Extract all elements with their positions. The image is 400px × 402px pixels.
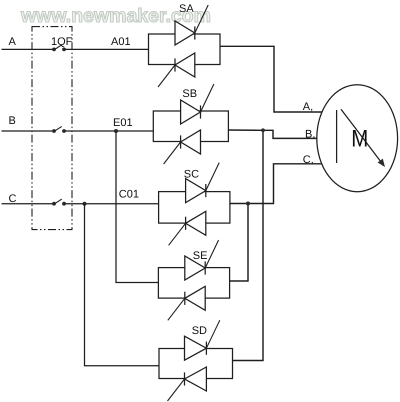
wire phase B from left edge to breaker contact — [2, 130, 55, 132]
node junction SD output on SB wire — [261, 128, 265, 132]
thyristor module SC box — [159, 192, 230, 224]
wire phase B from breaker to SB (net E01) — [64, 130, 153, 132]
svg-text:SE: SE — [193, 250, 208, 262]
node E01 junction on phase B (feeds SE) — [114, 129, 118, 133]
thyristor module SD box — [159, 349, 233, 379]
thyristor SE2 (reverse SCR, anode right) — [168, 286, 205, 320]
thyristor module SB box — [153, 111, 228, 142]
svg-text:A01: A01 — [111, 36, 131, 48]
wire phase C from left edge to breaker contact — [2, 203, 55, 205]
switch 1QF pole C (open contact with terminal dots) — [52, 199, 66, 206]
node C01 junction on phase C (feeds SD) — [83, 202, 87, 206]
node junction SE output on SC wire — [246, 202, 250, 206]
wire SD output up to phase B node — [233, 130, 264, 360]
thyristor SC1 (forward SCR, anode left) — [186, 163, 220, 203]
wire from E01 junction down to SE input — [116, 131, 158, 283]
thyristor SB1 (forward SCR, anode left) — [181, 84, 214, 124]
svg-text:SC: SC — [184, 169, 199, 181]
svg-text:E01: E01 — [113, 117, 133, 129]
wire from C01 junction down to SD input — [85, 204, 160, 366]
wire phase A from breaker to SA anode (net A01) — [64, 48, 149, 50]
svg-text:M: M — [351, 125, 368, 152]
svg-text:SA: SA — [179, 3, 194, 15]
wire phase C from breaker to SC (net C01) — [64, 203, 159, 205]
switch 1QF pole B (open contact with terminal dots) — [52, 126, 66, 133]
wire SB output to motor terminal B — [228, 130, 317, 138]
thyristor SC2 (reverse SCR, anode right) — [169, 211, 206, 245]
svg-text:B,: B, — [305, 129, 315, 141]
svg-text:B: B — [9, 115, 16, 127]
svg-text:C01: C01 — [119, 189, 139, 201]
motor stator bar — [336, 110, 338, 163]
motor M outline — [317, 85, 398, 192]
thyristor SA1 (forward SCR, anode left) — [175, 5, 208, 45]
wire SA output to motor terminal A — [220, 46, 322, 112]
thyristor module SA box — [149, 34, 221, 65]
motor shaft arrow — [341, 109, 385, 167]
wire SE output up to phase C node — [230, 204, 248, 282]
thyristor module SE box — [158, 268, 229, 299]
thyristor SA2 (reverse SCR, anode right) — [158, 53, 195, 87]
svg-text:SB: SB — [182, 88, 197, 100]
switch 1QF pole A (open contact with terminal dots) — [52, 45, 66, 52]
wire phase A from left edge to breaker contact — [2, 48, 55, 50]
thyristor SE1 (forward SCR, anode left) — [185, 240, 219, 280]
svg-text:C,: C, — [303, 154, 314, 166]
thyristor SD2 (reverse SCR, anode right) — [168, 367, 207, 401]
thyristor SB2 (reverse SCR, anode right) — [164, 130, 201, 164]
svg-text:SD: SD — [192, 325, 207, 337]
thyristor SD1 (forward SCR, anode left) — [185, 320, 220, 360]
wire SC output to motor terminal C — [230, 164, 322, 204]
breaker 1QF dashed enclosure — [32, 27, 72, 230]
svg-text:1QF: 1QF — [51, 36, 73, 48]
svg-text:A: A — [9, 36, 17, 48]
watermark — [21, 5, 211, 28]
svg-text:A,: A, — [303, 101, 313, 113]
